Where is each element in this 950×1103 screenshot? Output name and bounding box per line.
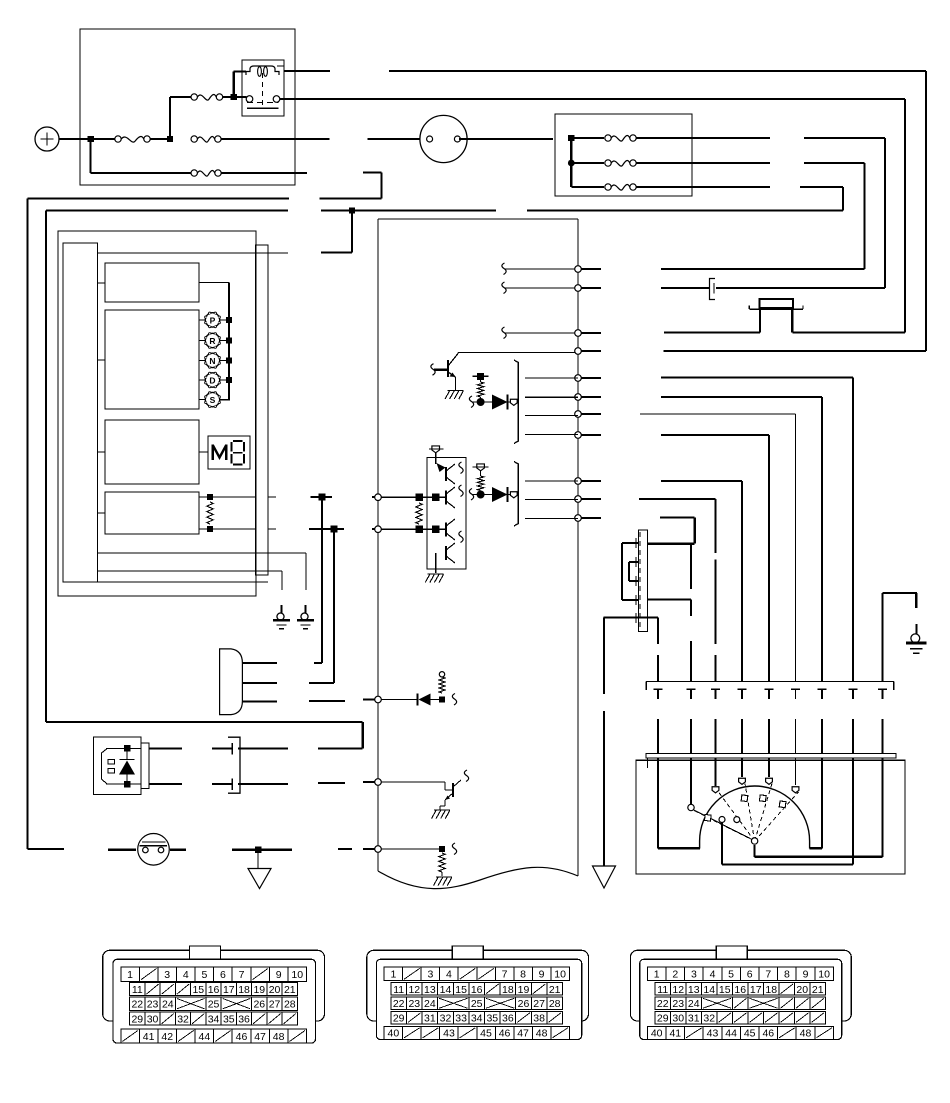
wire horn segment	[108, 849, 136, 851]
squig R6	[452, 843, 456, 855]
wire loop x362	[46, 722, 363, 749]
lamp P	[199, 312, 227, 328]
wire pin351 internal	[458, 353, 575, 355]
svg-text:44: 44	[199, 1031, 211, 1043]
svg-text:8: 8	[784, 969, 790, 981]
connector C3 (48-pin C) row5	[647, 1026, 833, 1039]
wire internal to pin 333	[502, 327, 575, 339]
rotary arc contact 2	[734, 817, 740, 823]
svg-text:4: 4	[710, 969, 716, 981]
svg-text:46: 46	[499, 1028, 511, 1040]
wire MC bottom bus	[604, 616, 659, 618]
resistor R5	[439, 672, 445, 693]
fuse F6 row2	[571, 160, 770, 166]
svg-text:11: 11	[657, 984, 668, 996]
wire T2 drop	[333, 529, 335, 683]
svg-text:34: 34	[471, 1013, 483, 1025]
svg-text:2: 2	[672, 969, 678, 981]
svg-text:38: 38	[533, 1013, 545, 1025]
svg-text:45: 45	[744, 1028, 756, 1040]
page arrow triangle	[593, 866, 616, 888]
bulb-check wires BR1	[525, 378, 578, 435]
connector bar CB1	[646, 682, 894, 691]
wire y198 from fuse3	[28, 173, 382, 199]
resistor R3	[416, 503, 422, 524]
svg-text:23: 23	[672, 998, 684, 1010]
ECU pin right y288	[575, 285, 582, 292]
svg-text:16: 16	[208, 984, 220, 996]
MC terminal ticks	[635, 538, 637, 623]
wire T1 drop	[321, 497, 323, 663]
ECU pin left 497	[375, 494, 382, 501]
contact B	[712, 787, 719, 793]
svg-text:21: 21	[812, 984, 824, 996]
RY2 top rail	[106, 748, 141, 750]
svg-text:19: 19	[253, 984, 265, 996]
shift display M letter	[213, 445, 227, 461]
ground Q2	[432, 810, 451, 819]
wire row481 to gauge	[661, 481, 747, 777]
svg-text:15: 15	[192, 984, 204, 996]
svg-text:18: 18	[502, 984, 514, 996]
ground Q2 wire	[440, 800, 445, 810]
wire bus y211	[46, 210, 843, 212]
noise capacitor C-N on pin288 wire	[710, 279, 716, 300]
cluster box	[58, 231, 256, 596]
junction J1	[87, 136, 93, 142]
MC bracket left outer	[622, 543, 639, 600]
svg-text:9: 9	[276, 969, 282, 981]
svg-text:31: 31	[688, 1013, 700, 1025]
connector C1 (48-pin A) row2	[130, 983, 298, 996]
connector C3 (48-pin C) row1	[647, 967, 833, 981]
wire pin269 stub	[578, 268, 601, 270]
relay RY1 box	[242, 60, 284, 116]
svg-text:43: 43	[707, 1028, 719, 1040]
svg-text:23: 23	[147, 999, 159, 1011]
junction D529a	[415, 525, 423, 533]
svg-text:13: 13	[424, 984, 436, 996]
wire W2 stub to pin	[578, 332, 601, 334]
svg-text:41: 41	[143, 1031, 155, 1043]
svg-text:22: 22	[393, 998, 405, 1010]
junction J2	[167, 136, 173, 142]
svg-text:16: 16	[471, 984, 483, 996]
wire F5 to ECU pin 288	[716, 138, 885, 288]
svg-text:35: 35	[486, 1013, 498, 1025]
wire chassis segment	[232, 849, 292, 851]
svg-text:3: 3	[164, 969, 170, 981]
svg-text:46: 46	[236, 1031, 248, 1043]
darlington box U1	[427, 458, 466, 570]
junction T2 arrow	[331, 526, 338, 533]
ECU pin right y351	[575, 348, 582, 355]
bulb-check wires BR2	[525, 481, 578, 519]
shift display M8 box	[208, 436, 250, 469]
svg-text:33: 33	[455, 1013, 467, 1025]
fuse F4 (battery row)	[191, 136, 330, 142]
svg-text:23: 23	[408, 998, 420, 1010]
U1 transistor Qc	[446, 519, 463, 543]
horn H (cigar lighter)	[138, 834, 170, 866]
ECU pin right y269	[575, 266, 582, 273]
svg-text:48: 48	[273, 1031, 285, 1043]
resistor R2	[477, 476, 483, 491]
svg-text:20: 20	[269, 984, 281, 996]
svg-text:11: 11	[393, 984, 404, 996]
svg-text:42: 42	[161, 1031, 173, 1043]
bracket BR1	[514, 360, 518, 444]
fuse F2 (upper)	[170, 94, 231, 100]
svg-text:29: 29	[131, 1014, 143, 1026]
svg-text:16: 16	[734, 984, 746, 996]
ground GR	[906, 593, 927, 653]
svg-text:46: 46	[762, 1028, 774, 1040]
cluster gauge box 3	[105, 420, 199, 484]
battery B1 (+)	[35, 127, 59, 151]
resistor R6	[439, 853, 445, 872]
svg-text:R: R	[209, 336, 215, 346]
svg-text:10: 10	[291, 969, 303, 981]
stub box2	[98, 359, 106, 361]
chassis ground W triangle	[248, 853, 271, 889]
svg-text:20: 20	[796, 984, 808, 996]
junction D497a	[415, 493, 423, 501]
bracket BR2	[514, 462, 518, 527]
contact A	[688, 804, 694, 810]
svg-text:26: 26	[253, 999, 265, 1011]
wire box1 to lamp bus	[199, 283, 229, 401]
connector C2 (48-pin B) row1	[384, 967, 569, 981]
wire box4 row2	[199, 528, 276, 530]
svg-text:24: 24	[424, 998, 436, 1010]
diode D3	[418, 694, 440, 706]
connector C2 (48-pin B) row2	[391, 983, 563, 996]
wire horn right	[170, 849, 186, 851]
svg-text:7: 7	[765, 969, 771, 981]
shift display 7-seg 8	[232, 441, 245, 465]
rotary wiper	[693, 810, 752, 840]
wire pin497 internal	[381, 496, 446, 498]
diode D2	[492, 487, 508, 502]
connector C2 (48-pin B) shell	[367, 946, 589, 1040]
terminal circle R2	[473, 464, 489, 476]
rotary arc contact 1	[704, 814, 711, 821]
connector bar CB2	[646, 753, 896, 768]
svg-text:3: 3	[691, 969, 697, 981]
svg-text:17: 17	[750, 984, 762, 996]
cluster bottom line 1	[98, 552, 307, 554]
transistor Q2	[445, 770, 469, 800]
U1 ground	[425, 565, 444, 583]
wire internal to pin 288	[502, 282, 575, 294]
svg-text:22: 22	[131, 999, 143, 1011]
svg-text:24: 24	[688, 998, 700, 1010]
svg-text:32: 32	[703, 1013, 715, 1025]
rotary arc contact 4	[759, 795, 766, 802]
wire horn row left	[28, 848, 65, 850]
lamp R	[199, 333, 227, 349]
wire RY2 out1	[149, 747, 182, 749]
svg-text:35: 35	[223, 1014, 235, 1026]
relay RY1 contact pins	[246, 73, 280, 108]
wire Drow3 to pin700	[309, 700, 375, 702]
wire left drop x27	[27, 199, 29, 850]
junction D529b	[432, 525, 440, 533]
wire W1 relay-top to ECU pin A (y71 wrap)	[284, 71, 926, 351]
relay RY2 tab	[141, 743, 149, 789]
rotary arc contact 3	[741, 795, 748, 802]
cluster gauge box 4	[105, 492, 199, 534]
ECU pin left 782	[375, 779, 382, 786]
wire cluster feed y253	[98, 252, 289, 254]
junction R6	[439, 846, 445, 852]
svg-text:26: 26	[518, 998, 530, 1010]
junction J5	[568, 160, 575, 167]
flasher unit F (circle)	[367, 115, 553, 162]
wire F6 to ECU pin 269	[661, 163, 865, 269]
stub box1	[98, 282, 106, 284]
svg-text:12: 12	[408, 984, 420, 996]
svg-text:11: 11	[132, 984, 143, 996]
cluster bottom line 3	[63, 581, 268, 583]
U1 transistor Qd	[436, 543, 455, 565]
ground g2	[297, 605, 314, 629]
wire J3 to relay top	[234, 72, 246, 98]
junction T1 arrow	[319, 494, 326, 501]
wire MC-out down x689	[687, 544, 696, 804]
svg-text:9: 9	[539, 969, 545, 981]
transistor Q1	[431, 354, 458, 391]
junction D3	[439, 697, 445, 703]
fuse F3 (bottom)	[91, 170, 307, 176]
diode D1	[492, 395, 508, 410]
lamp S	[199, 392, 229, 408]
svg-text:13: 13	[688, 984, 700, 996]
connector C1 (48-pin A) row4	[130, 1012, 298, 1026]
svg-text:45: 45	[480, 1028, 492, 1040]
pin circle D1	[508, 399, 518, 405]
ECU pin right y435	[575, 432, 582, 439]
fuse F5 row1	[571, 135, 770, 141]
junction D2	[477, 491, 485, 499]
svg-text:15: 15	[455, 984, 467, 996]
contact c-378	[719, 817, 725, 823]
wire internal to pin 269	[502, 263, 575, 275]
wire row378 to gauge	[661, 378, 858, 865]
junction D497b	[432, 493, 440, 501]
wire pin849 internal	[381, 848, 439, 850]
pin circle D2	[508, 492, 518, 498]
svg-text:47: 47	[254, 1031, 266, 1043]
capacitor bracket CB	[228, 737, 240, 793]
wire Drow3	[242, 700, 277, 702]
svg-text:14: 14	[440, 984, 452, 996]
svg-text:34: 34	[208, 1014, 220, 1026]
connector D1 (dash)	[220, 649, 243, 715]
RY2 diode terminal bottom	[124, 781, 131, 788]
wire x658 down	[654, 618, 701, 849]
svg-text:21: 21	[284, 984, 296, 996]
connector C3 (48-pin C) shell	[630, 946, 851, 1040]
svg-text:P: P	[210, 315, 216, 325]
svg-text:6: 6	[220, 969, 226, 981]
svg-text:25: 25	[208, 999, 220, 1011]
svg-text:24: 24	[162, 999, 174, 1011]
connector C1 (48-pin A) shell	[103, 946, 325, 1043]
svg-text:25: 25	[471, 998, 483, 1010]
svg-text:14: 14	[703, 984, 715, 996]
svg-text:27: 27	[269, 999, 281, 1011]
wire row529 to ECU	[309, 528, 378, 530]
junction lamp N	[226, 357, 232, 363]
svg-text:18: 18	[238, 984, 250, 996]
wire Drow1	[242, 662, 277, 664]
svg-text:1: 1	[390, 969, 396, 981]
connector C3 (48-pin C) row2	[655, 983, 826, 996]
stub box4	[98, 512, 106, 514]
ground wire g2	[305, 553, 307, 590]
svg-text:21: 21	[549, 984, 561, 996]
cluster gauge box 1	[105, 263, 199, 302]
mating connector MC housing	[639, 530, 648, 632]
cluster bottom line 2	[98, 570, 283, 572]
contact D	[766, 778, 773, 784]
wire CB right 1	[238, 747, 288, 749]
wire Drow2 elbow	[309, 682, 334, 684]
wire MC feed (pin518)	[648, 517, 695, 543]
wire row499 to gauge	[639, 499, 720, 786]
wire Drow1 elbow	[314, 662, 322, 664]
ground g1	[273, 605, 290, 629]
connector C1 (48-pin A) row3	[130, 997, 298, 1011]
CB terminal 1	[212, 743, 232, 755]
svg-text:17: 17	[223, 984, 235, 996]
svg-text:3: 3	[428, 969, 434, 981]
ground R6	[434, 872, 453, 886]
rotary arc contact 5	[779, 801, 786, 808]
cluster gauge box 2	[105, 310, 199, 409]
svg-text:22: 22	[657, 998, 669, 1010]
svg-text:31: 31	[424, 1013, 436, 1025]
connector C3 (48-pin C) row4	[655, 1011, 826, 1024]
fuse F7 row3	[571, 184, 770, 190]
junction lamp R	[226, 338, 232, 344]
svg-text:32: 32	[177, 1014, 189, 1026]
U1 transistor Qb	[446, 485, 463, 508]
wire box3 to M8	[199, 451, 208, 453]
rotary center	[751, 838, 757, 844]
svg-text:4: 4	[183, 969, 189, 981]
svg-text:D: D	[209, 375, 215, 385]
svg-text:12: 12	[672, 984, 684, 996]
gauge box	[636, 760, 905, 874]
wire row435 to gauge	[661, 435, 774, 777]
wire F7 to long bus y211	[800, 187, 843, 211]
contact C	[739, 778, 746, 784]
wire pin529 internal	[381, 528, 446, 530]
svg-text:5: 5	[728, 969, 734, 981]
ECU pin right y397	[575, 394, 582, 401]
wire squig D2	[469, 489, 492, 501]
ECU pin left 700	[375, 696, 382, 703]
wire pin288 left part	[578, 287, 709, 289]
ECU pin right y499	[575, 496, 582, 503]
cluster connector strip	[256, 245, 269, 575]
U1 transistor Qa	[437, 462, 464, 484]
wire to pin849	[338, 848, 375, 850]
relay RY2 box	[94, 737, 142, 795]
stub box3	[98, 451, 106, 453]
wire page-arrow vertical	[603, 618, 605, 867]
junction D1	[477, 397, 485, 406]
wire J2 up	[169, 97, 171, 139]
svg-text:47: 47	[517, 1028, 529, 1040]
svg-text:30: 30	[672, 1013, 684, 1025]
connector C2 (48-pin B) row3	[391, 997, 563, 1010]
svg-text:48: 48	[800, 1028, 812, 1040]
svg-text:7: 7	[502, 969, 508, 981]
svg-text:41: 41	[669, 1028, 681, 1040]
wire J1 down	[89, 139, 91, 173]
svg-text:28: 28	[284, 999, 296, 1011]
wire RY2 out2	[149, 783, 182, 785]
ECU box outline	[378, 219, 578, 889]
wire cap row2 to pin782	[318, 782, 375, 783]
svg-text:7: 7	[239, 969, 245, 981]
ECU pin right y518	[575, 515, 582, 522]
fuse box 1	[80, 29, 295, 185]
MC bracket left inner	[629, 562, 639, 581]
rotary dashed radials	[694, 784, 799, 842]
connector C2 (48-pin B) row4	[391, 1011, 563, 1024]
RY2 diode	[119, 751, 135, 781]
wire row397 to gauge	[661, 397, 827, 848]
ground wire g1	[281, 571, 283, 590]
lamp N	[199, 353, 227, 369]
resistor R1	[477, 382, 483, 397]
ECU pin left 849	[375, 846, 382, 853]
fuse box 2	[555, 114, 692, 196]
ECU pin right y414	[575, 411, 582, 418]
junction R4 bottom	[207, 526, 213, 532]
ECU pin left 529	[375, 526, 382, 533]
svg-text:N: N	[209, 356, 215, 366]
ground GR wire	[755, 593, 917, 857]
relay RY1 coil	[246, 66, 279, 76]
wire battery to fuse box	[59, 138, 92, 140]
RY2 bottom rail	[106, 783, 141, 785]
svg-text:1: 1	[654, 969, 660, 981]
wire squig D1	[469, 396, 492, 408]
pin stubs right	[581, 378, 601, 518]
connector C-joint (hat) on W2	[749, 299, 803, 309]
wire pin782 internal	[381, 782, 453, 790]
contact E	[792, 787, 799, 793]
svg-text:9: 9	[803, 969, 809, 981]
junction J3	[231, 94, 237, 100]
ECU pin right y378	[575, 375, 582, 382]
svg-text:5: 5	[201, 969, 207, 981]
rotary arc	[700, 786, 810, 849]
svg-text:36: 36	[238, 1014, 250, 1026]
svg-text:36: 36	[502, 1013, 514, 1025]
fuse F1	[91, 136, 167, 142]
svg-text:43: 43	[443, 1028, 455, 1040]
wire left drop x46	[45, 211, 47, 723]
terminal sq R1	[473, 373, 489, 382]
ground Q1	[445, 391, 464, 400]
